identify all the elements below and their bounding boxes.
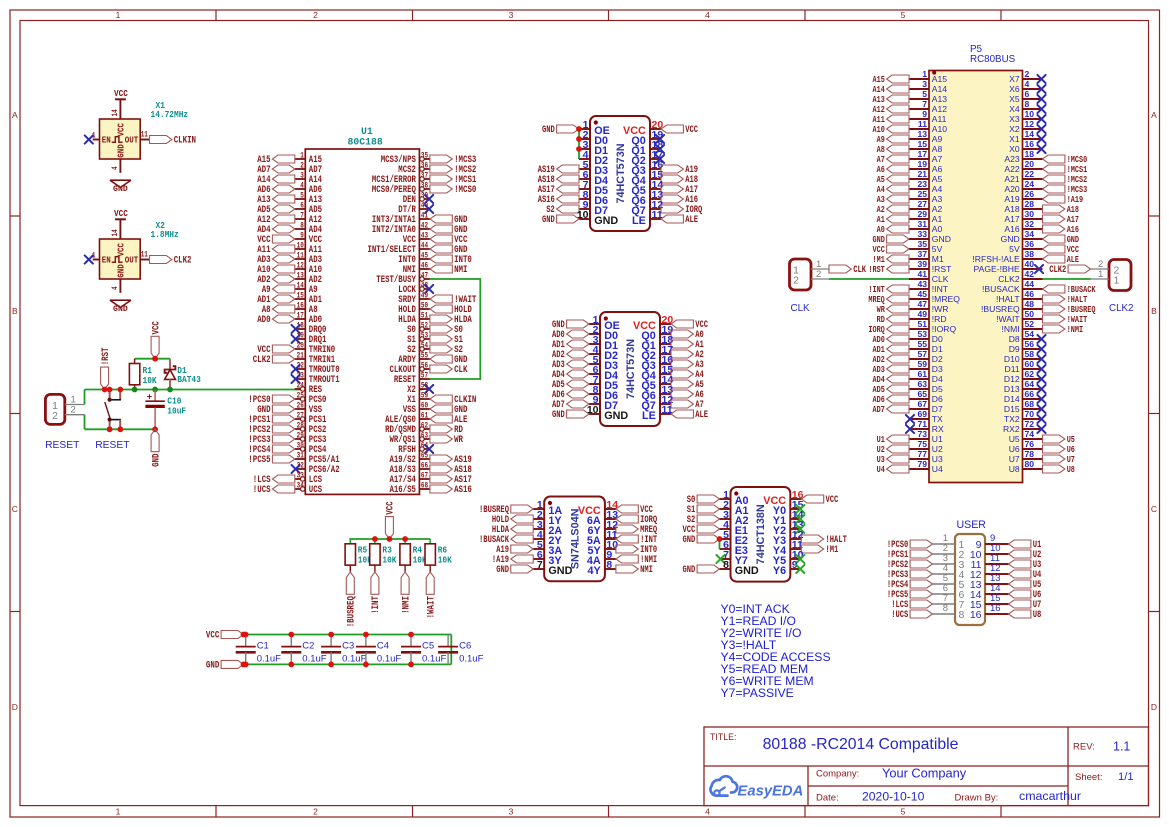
no-connect X on P5 pin 72 — [1037, 425, 1045, 433]
svg-text:GND: GND — [115, 144, 126, 158]
U4 SN74LS04N pin 7 GND — [533, 559, 572, 577]
svg-text:D13: D13 — [1004, 384, 1020, 394]
svg-text:U4: U4 — [932, 464, 943, 474]
svg-text:!RST: !RST — [101, 348, 112, 366]
svg-text:NMI: NMI — [454, 265, 467, 276]
net flag A9 — [877, 134, 909, 145]
net flag !BUSREQ — [479, 504, 533, 515]
net flag U5 — [1009, 579, 1042, 590]
net flag IORQ — [616, 514, 657, 525]
svg-text:AD7: AD7 — [873, 404, 885, 415]
svg-text:43: 43 — [917, 279, 927, 289]
net flag S2 — [687, 514, 720, 525]
svg-text:42: 42 — [1025, 269, 1035, 279]
net flag A7 — [877, 154, 909, 165]
svg-text:17: 17 — [297, 311, 304, 321]
svg-text:17: 17 — [917, 149, 927, 159]
USER pin 2 — [933, 543, 965, 561]
svg-text:1/1: 1/1 — [1118, 771, 1134, 783]
U3 74HCT573N pin 11 LE — [642, 404, 673, 422]
net flag AS16 — [538, 194, 579, 205]
U3 74HCT573N pin 15 Q4 — [641, 364, 673, 382]
U2 74HCT573N pin 1 OE — [579, 119, 610, 137]
net flag AS17 — [538, 184, 579, 195]
P5 pin 18 A23 — [1004, 149, 1042, 164]
IC U1 80C188 body — [305, 149, 419, 494]
svg-text:80C188: 80C188 — [348, 137, 383, 148]
net flag !PCS3 — [248, 435, 294, 446]
svg-text:9: 9 — [922, 109, 927, 119]
svg-text:GND: GND — [683, 564, 696, 575]
junction — [241, 632, 247, 638]
P5 pin 7 A12 — [909, 99, 947, 114]
U3 74HCT573N pin 5 D3 — [589, 354, 618, 372]
svg-text:GND: GND — [496, 564, 509, 575]
junction — [132, 387, 138, 393]
svg-text:60: 60 — [421, 401, 428, 411]
net flag !UCS — [253, 485, 295, 496]
svg-text:UCS: UCS — [309, 485, 322, 496]
svg-text:cmacarthur: cmacarthur — [1019, 789, 1081, 803]
USER pin 12 — [970, 563, 1009, 581]
net flag !MCS1 — [1043, 164, 1088, 175]
net flag A5 — [671, 379, 704, 390]
net flag A13 — [257, 195, 295, 206]
junction — [152, 356, 158, 362]
svg-text:CLK2: CLK2 — [998, 274, 1020, 284]
svg-text:52: 52 — [1025, 319, 1035, 329]
svg-text:!WR: !WR — [932, 304, 949, 314]
svg-text:70: 70 — [1025, 409, 1035, 419]
svg-text:D: D — [12, 702, 18, 712]
no-connect X on P5 pin 56 — [1037, 345, 1045, 353]
P5 pin 48 !BUSREQ — [981, 299, 1042, 314]
svg-text:2: 2 — [1025, 69, 1030, 79]
power flag VCC (X2) — [114, 208, 128, 219]
svg-text:10: 10 — [1025, 109, 1035, 119]
U1 pin 38 MCS0/PEREQ — [372, 181, 430, 197]
designator X1 — [151, 100, 189, 120]
net flag HOLD — [492, 514, 533, 525]
U3 74HCT573N pin 2 D0 — [589, 324, 618, 342]
net flag !INT — [616, 534, 657, 545]
U1 pin 17 AD0 — [295, 311, 322, 327]
svg-text:2: 2 — [52, 410, 58, 422]
U1 pin 33 LCS — [295, 471, 322, 487]
svg-text:55: 55 — [917, 339, 927, 349]
svg-text:D3: D3 — [932, 364, 943, 374]
U1 pin 21 TMRIN1 — [295, 351, 335, 367]
net flag A9 — [262, 285, 295, 296]
svg-text:!NMI: !NMI — [1067, 324, 1083, 335]
U3 74HCT573N pin 6 D4 — [589, 364, 618, 382]
connector USER body — [955, 534, 985, 625]
svg-text:A18: A18 — [1004, 204, 1020, 214]
svg-text:VCC: VCC — [826, 494, 839, 505]
svg-text:A10: A10 — [932, 124, 948, 134]
U2 74HCT573N pin 5 D3 — [579, 159, 608, 177]
net flag !NMI — [616, 554, 657, 565]
U1 pin 61 ALE/QS0 — [385, 411, 430, 427]
svg-text:D14: D14 — [1004, 394, 1020, 404]
net flag !INT — [371, 572, 382, 614]
svg-text:!BUSREQ: !BUSREQ — [981, 304, 1020, 314]
capacitor C1 — [236, 635, 281, 665]
no-connect X on U5 74HCT138N pin 15 — [796, 505, 804, 513]
svg-text:GND: GND — [115, 264, 126, 278]
svg-text:2: 2 — [313, 10, 318, 20]
U4 SN74LS04N pin 14 VCC — [578, 499, 618, 517]
svg-text:TX2: TX2 — [1004, 414, 1020, 424]
wire — [1043, 278, 1091, 280]
net flag AD5 — [873, 384, 910, 395]
net flag GND — [430, 215, 468, 226]
U1 pin 22 TMROUT0 — [295, 361, 340, 377]
U1 pin 67 A17/S4 — [390, 471, 430, 487]
net flag !BUSREQ — [1043, 304, 1096, 315]
net flag A14 — [873, 84, 910, 95]
junction — [576, 136, 582, 142]
svg-text:Y7=PASSIVE: Y7=PASSIVE — [721, 686, 794, 700]
svg-text:AD0: AD0 — [257, 315, 270, 326]
svg-text:VCC: VCC — [151, 321, 162, 334]
U1 pin 2 AD7 — [295, 161, 322, 177]
U3 74HCT573N pin 16 Q3 — [641, 354, 673, 372]
ground flag GND (reset) — [151, 429, 162, 467]
svg-text:44: 44 — [1025, 279, 1035, 289]
no-connect X on P5 pin 14 — [1037, 135, 1045, 143]
svg-text:Drawn By:: Drawn By: — [955, 792, 999, 803]
net flag ALE — [1043, 254, 1080, 265]
svg-text:4: 4 — [1025, 79, 1030, 89]
net flag GND — [542, 214, 579, 225]
net flag U4 — [877, 464, 909, 475]
net flag A12 — [257, 215, 295, 226]
no-connect X on U2 74HCT573N pin 17 — [656, 155, 664, 163]
svg-text:50: 50 — [421, 301, 428, 311]
net flag CLK — [829, 264, 866, 275]
svg-text:14: 14 — [111, 109, 120, 116]
USER pin 14 — [970, 583, 1009, 601]
svg-text:56: 56 — [421, 361, 428, 371]
wire — [119, 99, 121, 119]
net flag U6 — [1043, 444, 1076, 455]
net flag !BUSACK — [479, 534, 533, 545]
svg-text:47: 47 — [421, 271, 428, 281]
net flag !PCS5 — [887, 589, 933, 600]
svg-text:AS16: AS16 — [454, 485, 472, 496]
no-connect X on P5 pin 60 — [1037, 365, 1045, 373]
U4 SN74LS04N pin 2 1Y — [533, 509, 562, 527]
USER pin 8 — [933, 603, 965, 621]
net flag GND — [542, 124, 579, 135]
USER pin 5 — [933, 573, 965, 591]
svg-text:LE: LE — [632, 215, 646, 227]
U1 pin 8 AD4 — [295, 221, 322, 237]
P5 pin 66 D14 — [1004, 389, 1043, 404]
net flag AS19 — [538, 164, 579, 175]
U2 74HCT573N pin 16 Q3 — [631, 159, 663, 177]
P5 pin 63 D5 — [909, 379, 943, 394]
junction — [152, 426, 158, 432]
junction — [408, 662, 414, 668]
svg-text:67: 67 — [421, 471, 428, 481]
P5 pin 11 A10 — [909, 119, 947, 134]
no-connect X on P5 pin 2 — [1037, 75, 1045, 83]
net flag GND — [496, 564, 533, 575]
svg-text:A16/S5: A16/S5 — [390, 484, 416, 496]
net flag VCC — [683, 524, 720, 535]
P5 pin 5 A13 — [909, 89, 947, 104]
svg-text:C: C — [1151, 504, 1157, 514]
svg-text:8: 8 — [723, 559, 729, 571]
P5 pin 40 PAGE-!BHE — [974, 259, 1043, 274]
svg-text:A5: A5 — [932, 174, 943, 184]
P5 pin 55 D1 — [909, 339, 943, 354]
svg-text:80: 80 — [1025, 459, 1035, 469]
P5 pin 49 !RD — [909, 309, 947, 324]
net flag A10 — [257, 265, 295, 276]
net flag ALE — [661, 214, 698, 225]
svg-text:7: 7 — [922, 99, 927, 109]
U1 pin 30 PCS4 — [295, 441, 327, 457]
U1 pin 13 AD2 — [295, 271, 322, 287]
P5 pin 46 !HALT — [996, 289, 1043, 304]
wire — [135, 358, 170, 360]
net flag ALE — [671, 409, 708, 420]
svg-text:A13: A13 — [932, 94, 948, 104]
net flag !WAIT — [430, 295, 477, 306]
svg-text:10K: 10K — [382, 555, 396, 566]
net flag !MCS2 — [430, 165, 477, 176]
svg-text:15: 15 — [917, 139, 927, 149]
svg-text:15: 15 — [297, 291, 304, 301]
net flag GND — [552, 319, 589, 330]
U1 pin 1 A15 — [295, 151, 322, 167]
svg-text:GND: GND — [932, 234, 951, 244]
P5 pin 20 A22 — [1004, 159, 1042, 174]
net flag S1 — [430, 335, 463, 346]
junction — [117, 426, 123, 432]
svg-text:65: 65 — [917, 389, 927, 399]
U1 pin 42 INT2/INTA0 — [372, 221, 430, 237]
svg-text:U5: U5 — [1009, 434, 1020, 444]
svg-text:2020-10-10: 2020-10-10 — [862, 789, 925, 803]
net flag WR — [877, 304, 909, 315]
junction — [372, 536, 378, 542]
svg-text:64: 64 — [1025, 379, 1035, 389]
svg-text:!BUSACK: !BUSACK — [982, 284, 1020, 294]
svg-text:U4: U4 — [877, 464, 885, 475]
net flag GND — [430, 245, 468, 256]
junction — [167, 387, 173, 393]
net flag GND — [430, 405, 468, 416]
net flag VCC — [801, 494, 838, 505]
svg-text:33: 33 — [297, 471, 304, 481]
svg-text:CLK2: CLK2 — [253, 355, 271, 366]
U1 pin 19 DRQ1 — [295, 331, 327, 347]
U1 pin 4 AD6 — [295, 181, 322, 197]
svg-text:GND: GND — [542, 214, 555, 225]
svg-text:4: 4 — [111, 166, 120, 170]
svg-text:!MCS0: !MCS0 — [454, 185, 476, 196]
P5 pin 27 A2 — [909, 199, 943, 214]
P5 pin 68 D15 — [1004, 399, 1043, 414]
net flag AD2 — [873, 354, 910, 365]
svg-text:A1: A1 — [932, 214, 943, 224]
capacitor C10 — [145, 390, 186, 430]
junction — [402, 536, 408, 542]
net flag !M1 — [801, 544, 838, 555]
U3 74HCT573N pin 1 OE — [589, 314, 620, 332]
svg-text:22: 22 — [1025, 169, 1035, 179]
net flag S2 — [546, 204, 579, 215]
svg-text:74HCT138N: 74HCT138N — [755, 504, 767, 564]
net flag !UCS — [891, 609, 932, 620]
svg-text:28: 28 — [1025, 199, 1035, 209]
svg-text:24: 24 — [297, 381, 304, 391]
net flag !MCS3 — [1043, 184, 1088, 195]
svg-text:C: C — [12, 504, 18, 514]
U2 74HCT573N pin 12 Q7 — [631, 199, 663, 217]
U1 pin 43 VCC — [403, 231, 430, 247]
P5 pin 32 A16 — [1004, 219, 1042, 234]
net flag !HALT — [1043, 294, 1088, 305]
svg-text:EN: EN — [102, 255, 111, 266]
svg-text:VCC: VCC — [114, 208, 128, 219]
U5 74HCT138N pin 12 Y3 — [773, 529, 804, 547]
svg-text:!BUSREQ: !BUSREQ — [347, 596, 358, 627]
no-connect X on P5 pin 54 — [1037, 335, 1045, 343]
net flag AS18 — [430, 465, 472, 476]
svg-text:38: 38 — [1025, 249, 1035, 259]
U1 pin 50 HOLD — [398, 301, 430, 317]
no-connect X on P5 pin 4 — [1037, 85, 1045, 93]
no-connect X on P5 pin 8 — [1037, 105, 1045, 113]
junction — [576, 126, 582, 132]
svg-text:37: 37 — [421, 171, 428, 181]
net flag CLKIN — [150, 136, 197, 147]
net flag A11 — [873, 114, 910, 125]
net flag A6 — [671, 389, 704, 400]
P5 pin 33 GND — [909, 229, 951, 244]
connector CLK (P?) — [790, 259, 830, 290]
svg-text:A8: A8 — [932, 144, 943, 154]
junction — [328, 632, 334, 638]
IC U2 74HCT573N body — [590, 116, 650, 231]
net flag AD2 — [257, 275, 295, 286]
no-connect X on X2 pin 1 — [85, 255, 93, 263]
net flag S2 — [430, 345, 463, 356]
net flag U1 — [877, 434, 909, 445]
net flag A15 — [257, 155, 295, 166]
svg-text:26: 26 — [297, 401, 304, 411]
net flag VCC — [1043, 244, 1080, 255]
net flag VCC — [257, 345, 295, 356]
net flag VCC — [257, 235, 295, 246]
net flag GND — [683, 534, 720, 545]
ground flag GND (caps) — [206, 660, 244, 671]
net flag WR — [430, 435, 464, 446]
power flag VCC (pullups) — [385, 501, 396, 539]
svg-text:!RD: !RD — [932, 314, 947, 324]
resistor R4 — [400, 539, 427, 572]
U1 pin 3 A14 — [295, 171, 322, 187]
svg-text:80188 -RC2014 Compatible: 80188 -RC2014 Compatible — [763, 736, 959, 753]
U2 74HCT573N pin 13 Q6 — [631, 189, 663, 207]
net flag A17 — [1043, 214, 1080, 225]
power flag VCC (reset) — [151, 321, 162, 359]
P5 pin 61 D4 — [909, 369, 943, 384]
svg-text:BAT43: BAT43 — [177, 374, 201, 385]
P5 pin 9 A11 — [909, 109, 947, 124]
no-connect X on P5 pin 64 — [1037, 385, 1045, 393]
svg-text:11: 11 — [141, 251, 148, 260]
svg-text:A0: A0 — [932, 224, 943, 234]
svg-text:4: 4 — [705, 10, 710, 20]
U5 74HCT138N pin 14 Y1 — [773, 509, 804, 527]
net flag A3 — [671, 359, 704, 370]
P5 pin 13 A9 — [909, 129, 943, 144]
U4 SN74LS04N pin 8 4Y — [587, 559, 615, 577]
net flag U6 — [1009, 589, 1042, 600]
U1 pin 24 RES — [295, 381, 322, 397]
svg-text:GND: GND — [735, 565, 759, 577]
net flag A17 — [661, 184, 698, 195]
svg-text:!PCS5: !PCS5 — [248, 455, 270, 466]
P5 pin 47 !WR — [909, 299, 949, 314]
svg-text:48: 48 — [1025, 299, 1035, 309]
U1 pin 31 PCS5/A1 — [295, 451, 340, 467]
USER pin 4 — [933, 563, 965, 581]
svg-text:79: 79 — [917, 459, 927, 469]
svg-text:PAGE-!BHE: PAGE-!BHE — [974, 264, 1020, 274]
svg-text:29: 29 — [297, 431, 304, 441]
no-connect X on P5 pin 40 — [1035, 265, 1043, 273]
svg-text:16: 16 — [990, 603, 1001, 614]
USER pin 1 — [933, 533, 965, 551]
svg-text:Your Company: Your Company — [882, 765, 967, 780]
net flag A8 — [262, 305, 295, 316]
net flag MREQ — [868, 294, 909, 305]
svg-text:A12: A12 — [932, 104, 948, 114]
svg-text:C5: C5 — [422, 641, 434, 652]
svg-text:43: 43 — [421, 231, 428, 241]
U5 74HCT138N pin 9 Y6 — [773, 559, 801, 577]
P5 pin 28 A18 — [1004, 199, 1042, 214]
svg-text:2: 2 — [816, 269, 821, 280]
oscillator X1 — [92, 109, 150, 173]
svg-text:59: 59 — [917, 359, 927, 369]
net flag NMI — [616, 564, 653, 575]
svg-text:ALE: ALE — [1067, 254, 1080, 265]
svg-text:GND: GND — [552, 409, 565, 420]
net flag AD5 — [257, 205, 295, 216]
svg-text:!HALT: !HALT — [996, 294, 1020, 304]
svg-text:5: 5 — [901, 807, 906, 817]
svg-text:42: 42 — [421, 221, 428, 231]
resistor R6 — [425, 539, 452, 572]
svg-text:VCC: VCC — [206, 631, 219, 642]
no-connect X on P5 pin 58 — [1037, 355, 1045, 363]
svg-text:30: 30 — [297, 441, 304, 451]
P5 pin 65 D6 — [909, 389, 943, 404]
svg-text:7: 7 — [300, 211, 304, 221]
U1 pin 37 MCS1/ERROR — [372, 171, 430, 187]
svg-text:!M1: !M1 — [826, 544, 839, 555]
svg-text:!INT: !INT — [932, 284, 949, 294]
P5 pin 62 D12 — [1004, 369, 1043, 384]
